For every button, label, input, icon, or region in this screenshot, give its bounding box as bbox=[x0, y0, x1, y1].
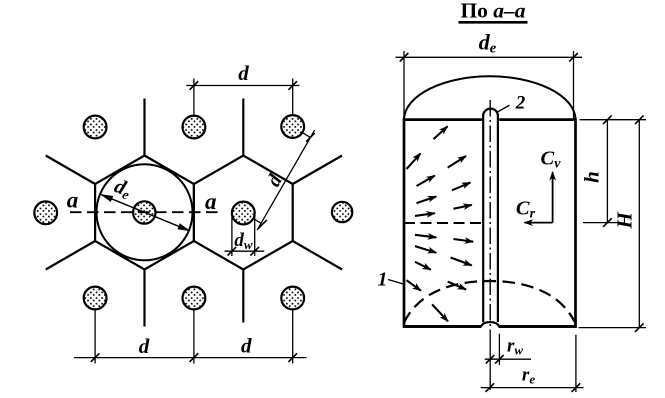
vacuum dome above block bbox=[404, 76, 576, 118]
svg-text:re: re bbox=[522, 365, 535, 387]
velocity vector Cr bbox=[525, 222, 553, 224]
svg-text:de: de bbox=[479, 30, 497, 57]
flow arrow d2 bbox=[453, 239, 473, 242]
flow arrow u7 bbox=[453, 205, 471, 209]
r_e extension line (right) bbox=[575, 335, 577, 392]
cell edge between T1 and T2 bbox=[143, 99, 145, 156]
soil block bottom edge (right of well) bbox=[499, 325, 576, 328]
hexagon cell M2 bbox=[194, 156, 293, 270]
cell edge between T2 and T3 bbox=[242, 99, 244, 156]
svg-text:h: h bbox=[579, 171, 603, 183]
flow arrow d7 bbox=[448, 282, 466, 290]
r_w tick right bbox=[495, 355, 504, 364]
soil block right wall bbox=[574, 118, 577, 328]
h bottom extension bbox=[583, 222, 618, 224]
bottom dimension: extension line from B1 bbox=[94, 310, 96, 364]
d_w dimension line bbox=[225, 250, 265, 252]
svg-text:Cv: Cv bbox=[541, 148, 562, 172]
label 2 leader bbox=[496, 105, 510, 113]
d_e tick right bbox=[569, 53, 578, 62]
bottom dimension line bbox=[74, 357, 307, 359]
soil block top edge (right of well) bbox=[499, 118, 575, 121]
H bottom extension bbox=[579, 327, 647, 329]
flow arrow u1 bbox=[434, 126, 448, 139]
bottom dimension: extension line from B3 bbox=[292, 310, 294, 364]
label 1 leader bbox=[388, 280, 404, 285]
svg-text:d: d bbox=[139, 334, 150, 358]
well T2 bbox=[183, 116, 206, 139]
top dimension d: tick right bbox=[288, 81, 297, 90]
label H bbox=[612, 211, 636, 229]
well B1 bbox=[84, 287, 107, 310]
top dimension d: extension line from T3 bbox=[292, 79, 294, 116]
well T1 bbox=[84, 116, 107, 139]
depression curve (dashed) bbox=[404, 281, 575, 323]
well B2 bbox=[183, 287, 206, 310]
flow arrow u3 bbox=[448, 156, 466, 168]
well bottom (rounded) bbox=[481, 322, 499, 326]
bottom tick 2 bbox=[190, 353, 199, 362]
diagonal dimension d: stub from M2 bbox=[253, 219, 261, 224]
well diameter dimension d_w: extension left bbox=[231, 211, 233, 257]
h tick top bbox=[603, 115, 612, 124]
svg-text:dw: dw bbox=[234, 230, 253, 252]
svg-text:H: H bbox=[612, 211, 636, 229]
top dimension d: dimension line bbox=[186, 85, 299, 87]
well T3 bbox=[281, 115, 304, 138]
section line a-a (dashed) bbox=[70, 211, 219, 213]
r_w extension line (right) bbox=[498, 334, 500, 365]
svg-text:Cr: Cr bbox=[516, 198, 536, 222]
equivalent circle of central cell bbox=[97, 164, 193, 260]
svg-text:2: 2 bbox=[515, 93, 526, 114]
lowered water level (dashed) bbox=[404, 222, 484, 224]
r_e dimension line bbox=[481, 387, 584, 389]
r_e tick right bbox=[572, 383, 581, 392]
diagonal dimension d: dimension line bbox=[257, 130, 315, 230]
diagonal dimension d: stub from T3 bbox=[303, 133, 310, 137]
centerline extension below bbox=[489, 330, 491, 390]
bottom tick 3 bbox=[288, 353, 297, 362]
flow arrow d5 bbox=[415, 262, 431, 270]
well M1 (central) bbox=[133, 201, 155, 223]
flow arrow u6 bbox=[417, 197, 437, 204]
flow arrow d8 bbox=[432, 304, 448, 321]
flow arrow u8 bbox=[415, 213, 435, 216]
soil block top edge (left of well) bbox=[404, 118, 482, 121]
flow arrow d3 bbox=[415, 246, 436, 253]
svg-text:1: 1 bbox=[378, 269, 388, 291]
well B3 bbox=[281, 287, 304, 310]
h tick bottom bbox=[603, 218, 612, 227]
H tick top bbox=[635, 115, 644, 124]
diagonal dimension d: label bbox=[263, 170, 288, 190]
top dimension d: tick left bbox=[190, 81, 199, 90]
top dimension d: extension line from T2 bbox=[193, 79, 195, 116]
cell M3 lower edge bbox=[293, 241, 342, 270]
d_e dimension line bbox=[396, 56, 583, 58]
d_w tick left bbox=[228, 247, 237, 256]
svg-text:a: a bbox=[205, 189, 217, 214]
well M3 bbox=[332, 202, 352, 222]
velocity vector Cv bbox=[552, 172, 554, 223]
d_e dimension: extension right bbox=[573, 51, 575, 119]
svg-text:d: d bbox=[241, 334, 252, 358]
well M0 bbox=[34, 201, 57, 224]
svg-text:de: de bbox=[111, 175, 135, 202]
svg-text:d: d bbox=[238, 61, 249, 85]
flow arrow u2 bbox=[407, 153, 421, 169]
H tick bottom bbox=[635, 323, 644, 332]
hexagon cell M1 (central) bbox=[95, 156, 194, 270]
well casing right wall bbox=[497, 114, 499, 322]
d_e tick left bbox=[400, 53, 409, 62]
well M2 bbox=[232, 202, 255, 225]
r_w dimension line bbox=[485, 358, 531, 360]
flow arrow u4 bbox=[417, 176, 435, 186]
well casing left wall bbox=[482, 114, 484, 322]
cell edge between B2 and B3 bbox=[242, 270, 244, 323]
well diameter dimension d_w: extension right bbox=[254, 211, 256, 257]
cell M0 lower edge bbox=[46, 241, 95, 270]
cell edge between B1 and B2 bbox=[143, 270, 145, 327]
bottom dimension: extension line from B2 bbox=[193, 310, 195, 364]
d_w tick right bbox=[250, 247, 259, 256]
cell M3 upper edge bbox=[293, 156, 342, 185]
label d_e bbox=[111, 175, 135, 202]
well cap (rounded top) bbox=[483, 109, 498, 115]
flow arrows toward well bbox=[407, 126, 474, 321]
flow arrow d1 bbox=[415, 235, 436, 238]
H dimension line bbox=[638, 120, 640, 328]
soil block left wall bbox=[403, 118, 406, 328]
soil block bottom edge (left of well) bbox=[404, 325, 482, 328]
cell M0 upper edge bbox=[46, 156, 95, 185]
well axis (dash-dot centerline) bbox=[489, 100, 491, 330]
flow arrow d4 bbox=[451, 258, 472, 266]
svg-text:По а–а: По а–а bbox=[460, 0, 525, 23]
top right extension line bbox=[580, 119, 647, 121]
svg-text:a: a bbox=[67, 188, 79, 213]
diagonal dimension d: tick top bbox=[306, 133, 315, 142]
d_e dimension: extension left bbox=[403, 51, 405, 119]
flow arrow d6 bbox=[407, 280, 421, 291]
bottom tick 1 bbox=[91, 353, 100, 362]
diagonal dimension d: tick bottom bbox=[258, 220, 267, 229]
r_e tick left bbox=[486, 383, 495, 392]
svg-text:rw: rw bbox=[507, 336, 523, 358]
diameter arrow d_e bbox=[101, 195, 190, 231]
label h bbox=[579, 171, 603, 183]
flow arrow u5 bbox=[452, 183, 470, 191]
h dimension line bbox=[606, 120, 608, 223]
title underline bbox=[459, 21, 528, 24]
r_w tick left bbox=[486, 355, 495, 364]
